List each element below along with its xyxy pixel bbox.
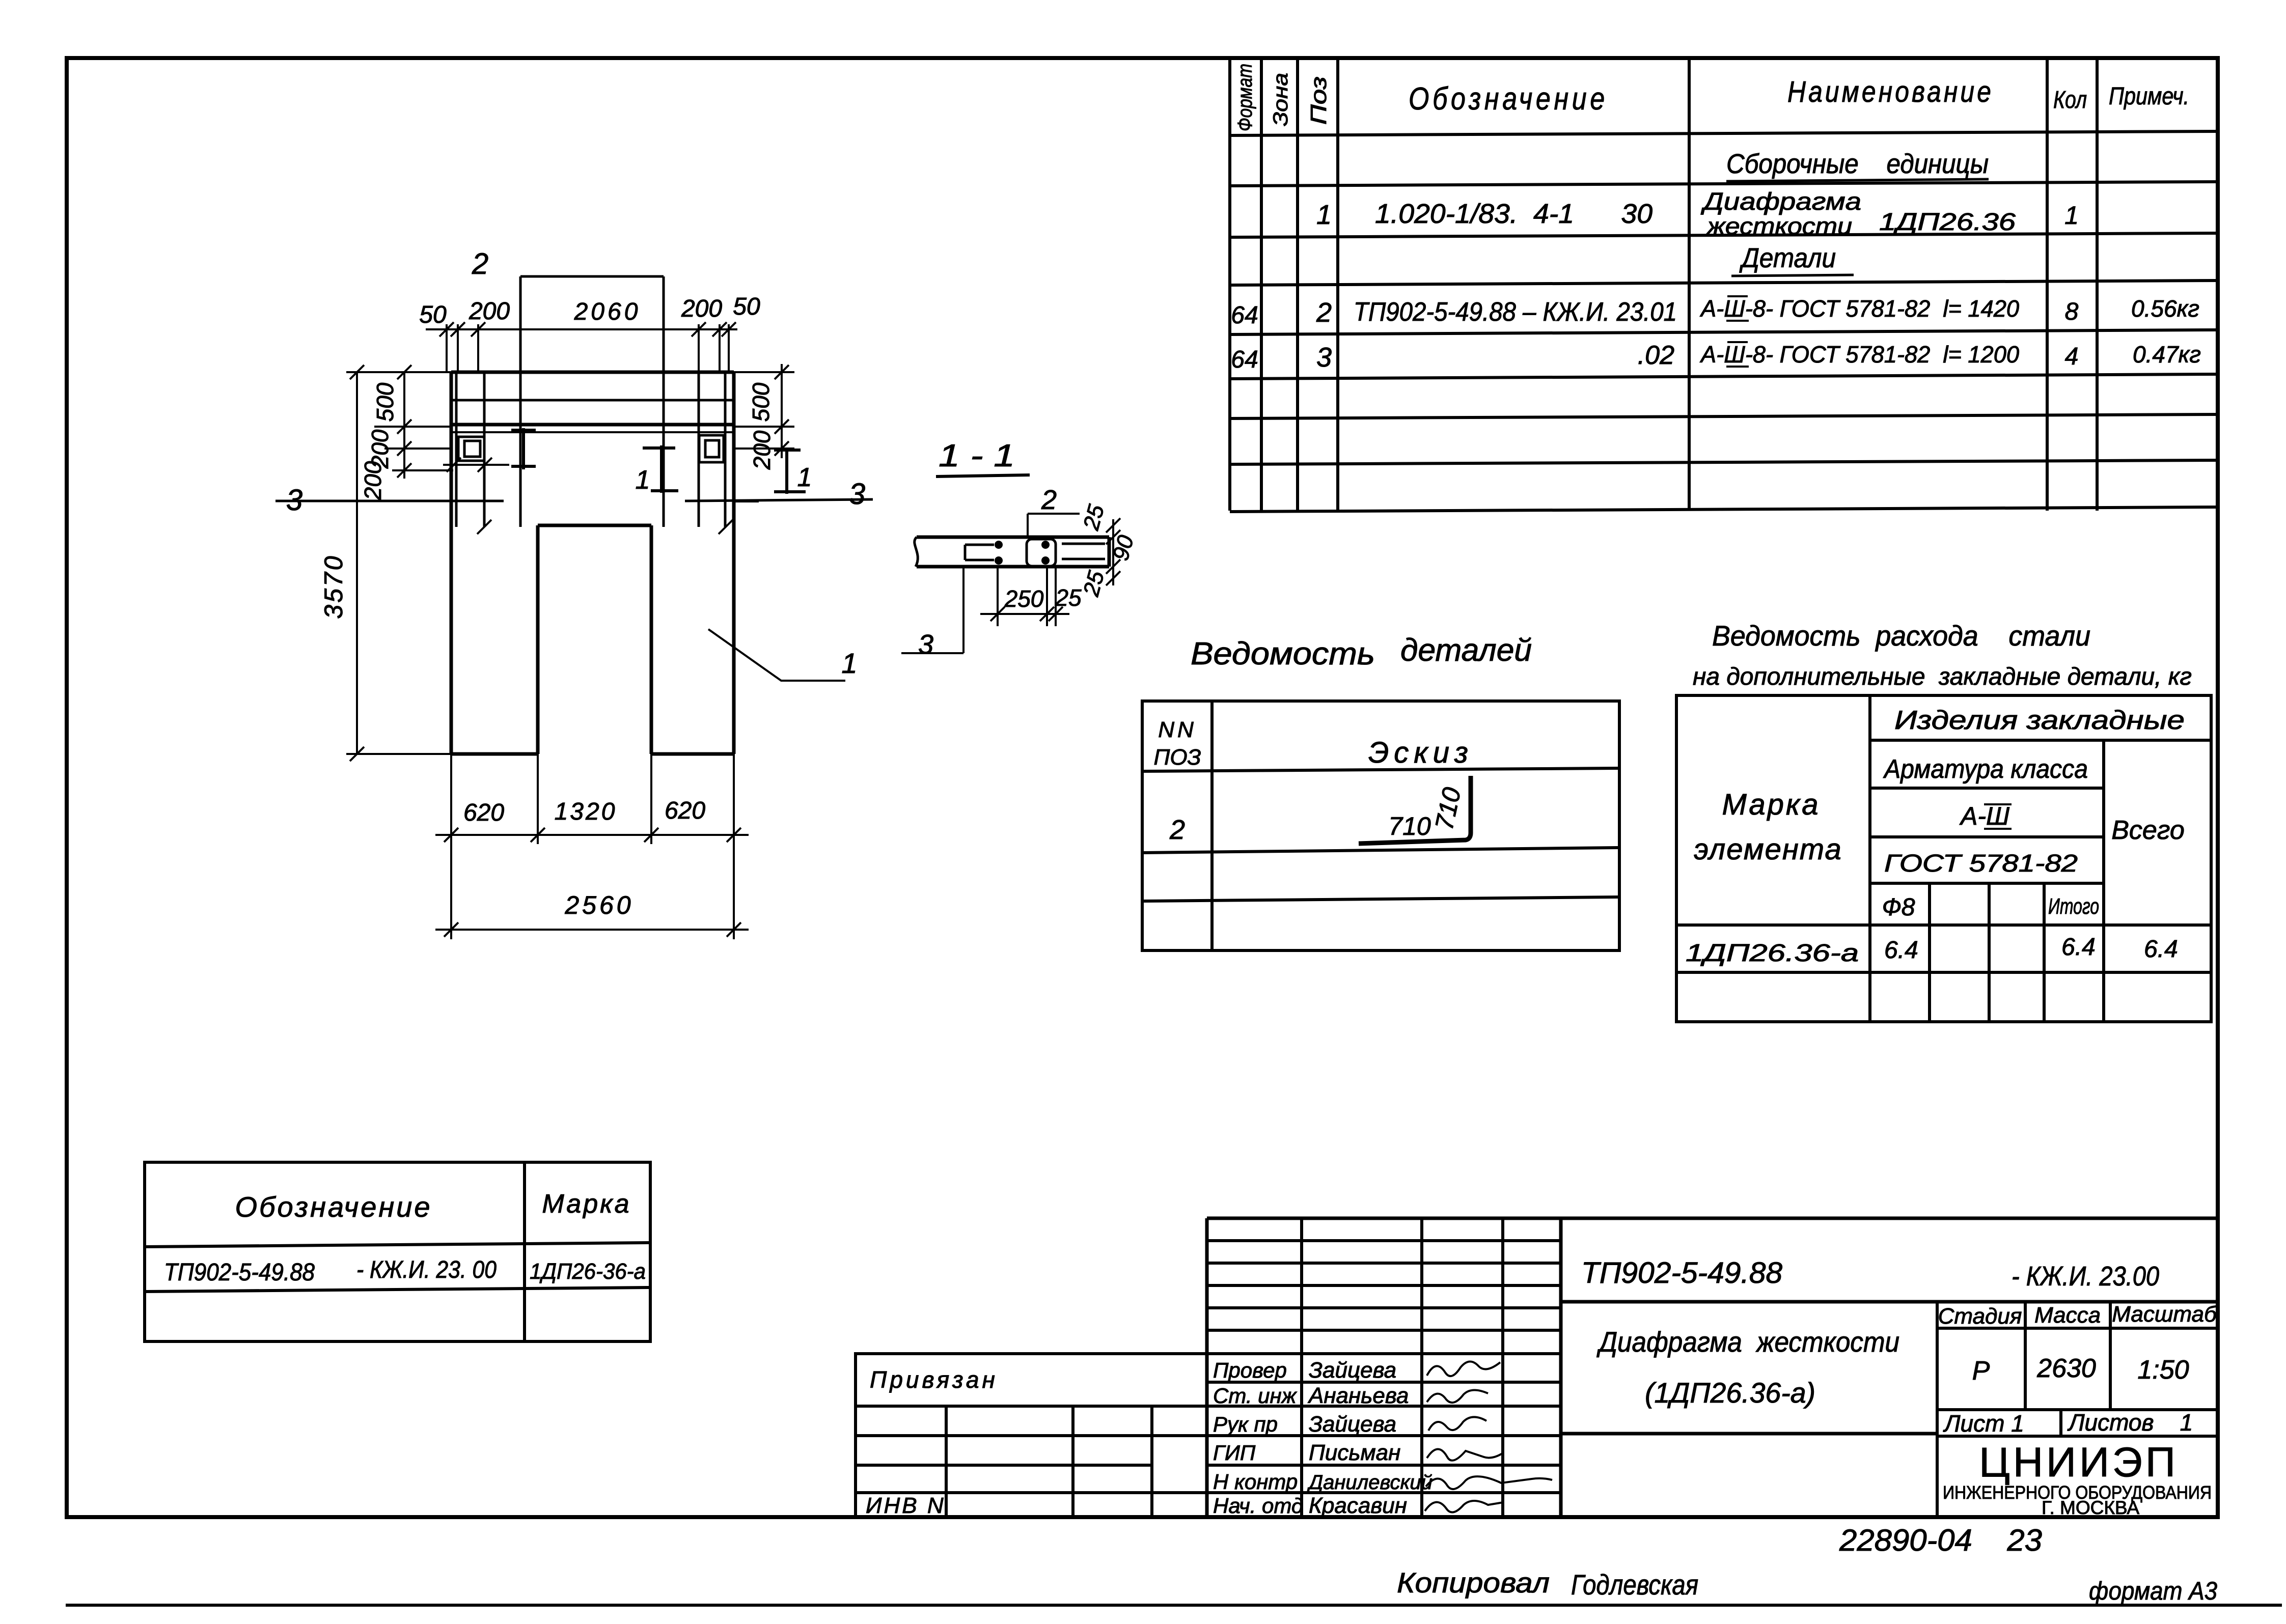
svg-text:элемента: элемента: [1694, 833, 1842, 866]
svg-text:200: 200: [749, 430, 775, 470]
svg-text:64: 64: [1231, 346, 1258, 373]
svg-text:ЦНИИЭП: ЦНИИЭП: [1979, 1439, 2179, 1486]
svg-text:ТП902-5-49.88: ТП902-5-49.88: [164, 1259, 315, 1286]
svg-text:Формат: Формат: [1234, 64, 1256, 131]
svg-text:1.020-1/83. 4-1 30: 1.020-1/83. 4-1 30: [1375, 199, 1652, 229]
svg-text:Годлевская: Годлевская: [1571, 1569, 1698, 1601]
svg-text:Обозначение: Обозначение: [235, 1191, 432, 1223]
svg-text:620: 620: [665, 797, 705, 824]
svg-text:Зайцева: Зайцева: [1309, 1412, 1396, 1437]
svg-text:Арматура класса: Арматура класса: [1883, 754, 2088, 784]
svg-text:1 - 1: 1 - 1: [939, 438, 1015, 473]
svg-text:1320: 1320: [555, 798, 617, 825]
svg-text:50: 50: [419, 301, 447, 328]
svg-text:ИНВ N: ИНВ N: [866, 1493, 946, 1518]
svg-text:1:50: 1:50: [2137, 1355, 2189, 1385]
svg-text:710: 710: [1429, 785, 1466, 832]
svg-text:200: 200: [681, 295, 722, 322]
svg-text:2560: 2560: [564, 891, 634, 919]
svg-text:3: 3: [849, 478, 865, 511]
svg-text:2: 2: [472, 247, 488, 281]
svg-text:Данилевский: Данилевский: [1307, 1471, 1433, 1494]
svg-text:2: 2: [1316, 297, 1332, 328]
svg-text:Изделия закладные: Изделия закладные: [1894, 706, 2185, 735]
svg-text:250: 250: [1004, 585, 1044, 612]
svg-text:25: 25: [1079, 502, 1109, 533]
svg-text:Всего: Всего: [2111, 816, 2185, 845]
svg-text:Письман: Письман: [1309, 1440, 1400, 1465]
svg-text:2: 2: [1169, 815, 1185, 845]
svg-text:на дополнительные закладные д: на дополнительные закладные детали, кг: [1693, 663, 2192, 690]
svg-text:- КЖ.И. 23. 00: - КЖ.И. 23. 00: [356, 1256, 497, 1283]
svg-text:1ДП26.36-а: 1ДП26.36-а: [1686, 940, 1859, 967]
svg-text:6.4: 6.4: [1884, 937, 1918, 964]
svg-text:Н контр: Н контр: [1213, 1470, 1298, 1494]
svg-text:жесткости: жесткости: [1706, 213, 1852, 239]
svg-text:Ведомость: Ведомость: [1191, 636, 1375, 671]
svg-text:(1ДП26.36-а): (1ДП26.36-а): [1645, 1377, 1815, 1409]
svg-text:ТП902-5-49.88 – КЖ.И. 23.01: ТП902-5-49.88 – КЖ.И. 23.01: [1354, 297, 1677, 327]
svg-text:деталей: деталей: [1400, 633, 1532, 668]
svg-text:1ДП26.36: 1ДП26.36: [1879, 209, 2016, 236]
svg-text:Привязан: Привязан: [870, 1366, 998, 1393]
svg-text:Масса: Масса: [2034, 1303, 2101, 1328]
svg-text:ГИП: ГИП: [1213, 1441, 1256, 1465]
svg-text:Сборочные единицы: Сборочные единицы: [1726, 149, 1989, 179]
svg-text:Примеч.: Примеч.: [2109, 83, 2189, 110]
svg-text:Масштаб: Масштаб: [2112, 1302, 2218, 1327]
svg-text:Лист 1: Лист 1: [1943, 1410, 2024, 1437]
svg-text:Поз: Поз: [1306, 76, 1331, 125]
svg-text:500: 500: [372, 382, 398, 422]
svg-text:200: 200: [469, 298, 510, 325]
svg-text:1ДП26-36-а: 1ДП26-36-а: [530, 1259, 646, 1284]
svg-text:3: 3: [286, 484, 302, 517]
svg-text:1: 1: [2064, 201, 2079, 230]
svg-text:Наименование: Наименование: [1787, 75, 1994, 108]
svg-text:Эскиз: Эскиз: [1368, 736, 1473, 769]
svg-text:Обозначение: Обозначение: [1409, 81, 1608, 117]
svg-text:Кол: Кол: [2053, 87, 2087, 114]
svg-text:1: 1: [841, 647, 857, 679]
svg-text:Марка: Марка: [1722, 788, 1820, 821]
svg-text:6.4: 6.4: [2144, 936, 2178, 963]
svg-text:0.56кг: 0.56кг: [2131, 295, 2199, 322]
svg-text:Ведомость расхода стали: Ведомость расхода стали: [1712, 620, 2090, 652]
svg-text:3: 3: [918, 629, 933, 660]
svg-text:Г. МОСКВА: Г. МОСКВА: [2042, 1497, 2139, 1518]
svg-text:ГОСТ 5781-82: ГОСТ 5781-82: [1884, 850, 2078, 877]
svg-text:Зайцева: Зайцева: [1309, 1358, 1396, 1383]
svg-text:1: 1: [1316, 200, 1332, 230]
svg-text:Диафрагма жесткости: Диафрагма жесткости: [1596, 1326, 1899, 1358]
svg-text:формат А3: формат А3: [2089, 1577, 2217, 1605]
svg-text:- КЖ.И. 23.00: - КЖ.И. 23.00: [2012, 1261, 2159, 1292]
svg-text:Зона: Зона: [1270, 73, 1292, 126]
svg-text:Детали: Детали: [1739, 243, 1836, 273]
svg-text:2630: 2630: [2036, 1354, 2096, 1383]
svg-text:Ст. инж: Ст. инж: [1213, 1384, 1298, 1408]
svg-text:6.4: 6.4: [2061, 934, 2096, 961]
svg-text:1: 1: [636, 465, 650, 495]
svg-text:Ф8: Ф8: [1882, 894, 1915, 921]
svg-text:Итого: Итого: [2048, 894, 2099, 919]
svg-text:Ананьева: Ананьева: [1307, 1383, 1409, 1408]
svg-text:А-Ш: А-Ш: [1959, 802, 2010, 830]
svg-text:Листов 1: Листов 1: [2067, 1409, 2193, 1436]
svg-text:ПОЗ: ПОЗ: [1153, 745, 1201, 770]
svg-text:2060: 2060: [574, 298, 641, 325]
svg-text:22890-04 23: 22890-04 23: [1839, 1523, 2042, 1557]
svg-text:ТП902-5-49.88: ТП902-5-49.88: [1581, 1256, 1782, 1290]
svg-text:Марка: Марка: [542, 1189, 631, 1219]
svg-text:4: 4: [2065, 343, 2079, 370]
svg-text:500: 500: [748, 382, 774, 422]
svg-text:620: 620: [463, 799, 504, 826]
svg-text:Красавин: Красавин: [1309, 1493, 1407, 1518]
svg-text:50: 50: [733, 293, 760, 320]
svg-text:Диафрагма: Диафрагма: [1700, 188, 1861, 215]
svg-text:25: 25: [1055, 584, 1082, 611]
svg-text:8: 8: [2065, 298, 2079, 325]
svg-text:Р: Р: [1972, 1356, 1990, 1386]
svg-text:2: 2: [1041, 485, 1057, 515]
svg-text:А-Ш-8- ГОСТ 5781-82 l= 1420: А-Ш-8- ГОСТ 5781-82 l= 1420: [1699, 295, 2019, 322]
svg-text:200: 200: [360, 461, 386, 500]
svg-text:NN: NN: [1158, 717, 1197, 742]
svg-text:25: 25: [1079, 568, 1109, 599]
svg-text:А-Ш-8- ГОСТ 5781-82 l= 1200: А-Ш-8- ГОСТ 5781-82 l= 1200: [1699, 341, 2019, 368]
svg-text:1: 1: [797, 463, 812, 492]
svg-text:3570: 3570: [319, 554, 348, 619]
svg-text:3: 3: [1316, 342, 1332, 373]
svg-text:Рук пр: Рук пр: [1213, 1412, 1278, 1436]
svg-text:Стадия: Стадия: [1938, 1304, 2022, 1329]
svg-text:Копировал: Копировал: [1397, 1566, 1550, 1599]
svg-text:Нач. отд: Нач. отд: [1213, 1494, 1303, 1518]
svg-text:710: 710: [1388, 812, 1431, 841]
svg-text:0.47кг: 0.47кг: [2133, 341, 2201, 368]
svg-text:64: 64: [1231, 302, 1258, 329]
svg-text:.02: .02: [1638, 341, 1674, 370]
svg-text:Провер: Провер: [1213, 1358, 1287, 1382]
